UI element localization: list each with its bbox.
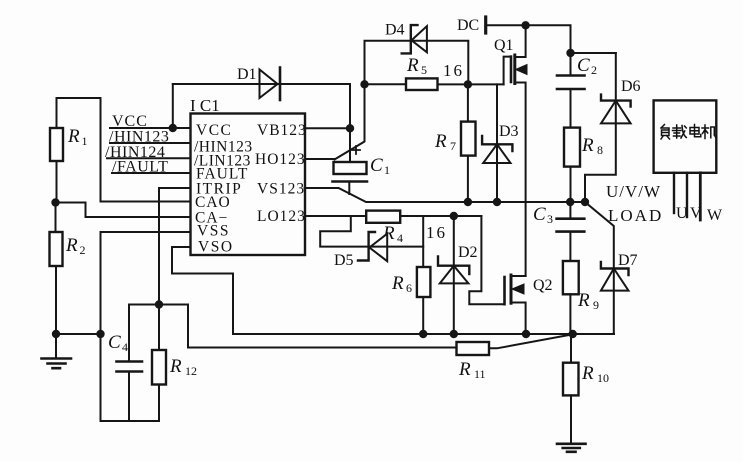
svg-text:VCC: VCC xyxy=(112,113,148,130)
svg-text:U/V/W: U/V/W xyxy=(606,182,661,201)
label D4 xyxy=(385,22,405,39)
svg-text:C: C xyxy=(533,204,546,225)
ground xyxy=(42,359,72,369)
label R5 xyxy=(406,55,464,80)
label C1 xyxy=(370,155,390,177)
svg-text:4: 4 xyxy=(397,231,403,245)
node VCC/D1 anode xyxy=(169,124,177,132)
svg-text:Q2: Q2 xyxy=(533,277,553,294)
label V xyxy=(690,205,702,222)
label D3 xyxy=(499,123,519,140)
node R1/R2 junction xyxy=(51,198,59,206)
node R8/C3 xyxy=(566,198,574,206)
pin FAULT xyxy=(196,166,248,183)
wire ITRIP pin down xyxy=(159,188,191,305)
wire /HIN123 input xyxy=(110,142,191,144)
wire /FAULT input xyxy=(112,172,191,174)
svg-text:Q1: Q1 xyxy=(494,37,514,54)
DC supply xyxy=(486,17,616,76)
wire D1 anode up xyxy=(172,84,174,128)
svg-text:12: 12 xyxy=(185,364,197,378)
svg-text:C: C xyxy=(577,55,590,76)
node D2 bottom xyxy=(450,330,458,338)
capacitor C1 xyxy=(333,146,368,194)
svg-text:/HIN123: /HIN123 xyxy=(109,129,169,146)
svg-text:I C1: I C1 xyxy=(190,96,220,115)
resistor R11 xyxy=(457,334,573,355)
label /FAULT input xyxy=(112,159,168,176)
label R1 xyxy=(67,126,88,148)
svg-text:HO123: HO123 xyxy=(255,151,306,168)
label load motor (Chinese 负载电机) xyxy=(661,125,716,140)
svg-text:R: R xyxy=(65,235,78,256)
wire ground junction to VSS branch xyxy=(56,333,101,335)
diode D4 xyxy=(365,25,469,84)
wire /HIN124 input xyxy=(107,157,191,159)
wire LO123 pin xyxy=(305,215,367,217)
wire VSO pin to bottom bus xyxy=(172,247,614,334)
pin VSS xyxy=(197,223,230,240)
label D1 xyxy=(237,66,257,83)
pin VS123 xyxy=(257,181,305,198)
pin LO123 xyxy=(257,208,306,225)
label R9 xyxy=(577,290,599,312)
svg-text:R: R xyxy=(581,135,594,156)
label W xyxy=(707,207,723,224)
svg-text:R: R xyxy=(67,126,80,147)
pin /LIN123 xyxy=(194,153,251,170)
label VCC input xyxy=(112,113,148,130)
node C2 top xyxy=(566,49,574,57)
svg-text:3: 3 xyxy=(547,212,553,226)
label R12 xyxy=(169,356,197,378)
node VSS/ground xyxy=(96,330,104,338)
node VB123/D1 xyxy=(346,124,354,132)
svg-text:W: W xyxy=(707,207,723,224)
svg-text:10: 10 xyxy=(597,371,609,385)
motor lead U xyxy=(673,173,675,213)
pin HO123 xyxy=(255,151,306,168)
node R7 bottom xyxy=(464,198,472,206)
label D7 xyxy=(618,252,638,269)
svg-text:R: R xyxy=(434,131,447,152)
label U/V/W xyxy=(606,182,661,201)
resistor R4 xyxy=(366,211,481,223)
label C2 xyxy=(577,55,597,77)
svg-text:VSO: VSO xyxy=(198,239,234,256)
label Q1 xyxy=(494,37,514,54)
svg-text:VSS: VSS xyxy=(197,223,230,240)
wire node to R11 xyxy=(188,305,457,348)
node Q2 source xyxy=(522,330,530,338)
label R2 xyxy=(65,235,86,257)
zener D6 xyxy=(585,53,631,202)
label D2 xyxy=(458,244,478,261)
capacitor C2 xyxy=(557,76,585,128)
svg-text:LO123: LO123 xyxy=(257,208,306,225)
svg-text:C: C xyxy=(108,332,121,353)
node R5/R7/gate xyxy=(464,80,472,88)
wire C4/R12 top node xyxy=(129,304,188,306)
IC U1 box xyxy=(191,114,306,256)
wire VSS pin down to C4/R12 bottom xyxy=(101,232,191,421)
wire junction to CA- pin xyxy=(56,203,191,218)
svg-text:V: V xyxy=(690,205,702,222)
motor lead W xyxy=(699,173,702,220)
pin VSO xyxy=(198,239,234,256)
load motor box xyxy=(654,100,717,172)
svg-text:VCC: VCC xyxy=(196,122,232,139)
label C3 xyxy=(533,204,553,226)
capacitor C4 xyxy=(117,305,143,422)
svg-text:16: 16 xyxy=(443,61,464,80)
svg-text:5: 5 xyxy=(421,63,427,77)
resistor R7 xyxy=(461,84,476,202)
pin VB123 xyxy=(257,122,307,139)
node D6/D7 xyxy=(581,198,589,206)
node Q1 drain xyxy=(521,21,529,29)
pin /HIN123 xyxy=(194,139,253,156)
wire HO123 pin xyxy=(305,158,335,160)
svg-text:D3: D3 xyxy=(499,123,519,140)
svg-text:D7: D7 xyxy=(618,252,638,269)
svg-text:R: R xyxy=(391,273,404,294)
svg-text:D1: D1 xyxy=(237,66,257,83)
label C4 xyxy=(108,332,128,354)
transistor Q1 xyxy=(504,25,527,276)
svg-text:R: R xyxy=(406,55,419,76)
svg-text:D5: D5 xyxy=(334,252,354,269)
label R8 xyxy=(581,135,603,157)
node D3 bottom xyxy=(493,198,501,206)
svg-text:D6: D6 xyxy=(621,78,641,95)
resistor R2 xyxy=(50,203,63,359)
resistor R12 xyxy=(152,305,166,422)
svg-text:1: 1 xyxy=(82,134,88,148)
resistor R1 xyxy=(50,128,63,203)
label R6 xyxy=(391,273,412,295)
pin ITRIP xyxy=(196,181,242,198)
label R11 xyxy=(458,359,486,381)
svg-text:D2: D2 xyxy=(458,244,478,261)
svg-text:U: U xyxy=(676,205,688,222)
svg-text:VB123: VB123 xyxy=(257,122,307,139)
svg-text:9: 9 xyxy=(593,298,599,312)
svg-text:8: 8 xyxy=(597,143,603,157)
diode D1 xyxy=(173,68,350,163)
zener D2 xyxy=(438,216,469,334)
svg-text:4: 4 xyxy=(122,340,128,354)
label D5 xyxy=(334,252,354,269)
resistor R9 xyxy=(563,261,579,334)
svg-text:C: C xyxy=(370,155,383,176)
wire HO diagonal to D4/R5 leg xyxy=(335,84,365,159)
node D4/R5/HO xyxy=(360,80,368,88)
label R7 xyxy=(434,131,456,153)
pin CA- xyxy=(195,210,228,227)
resistor R8 xyxy=(564,128,580,202)
node R6 bottom xyxy=(419,330,427,338)
label D6 xyxy=(621,78,641,95)
pin CAO xyxy=(195,194,231,211)
node C4/R12/ITRIP xyxy=(155,300,163,308)
svg-text:1: 1 xyxy=(384,163,390,177)
label U xyxy=(676,205,688,222)
node LO123/D2/gate xyxy=(450,212,458,220)
svg-text:DC: DC xyxy=(457,17,479,34)
svg-text:6: 6 xyxy=(406,281,412,295)
label R4 xyxy=(382,223,447,245)
resistor R6 xyxy=(417,216,431,334)
wire VS123 phase line xyxy=(305,188,585,202)
svg-text:11: 11 xyxy=(474,367,486,381)
label /HIN124 input xyxy=(105,144,165,161)
resistor R10 xyxy=(563,334,579,442)
label DC xyxy=(457,17,479,34)
label IC1 xyxy=(190,96,220,115)
transistor Q2 xyxy=(469,216,525,334)
diode D5 xyxy=(358,232,423,261)
svg-text:CAO: CAO xyxy=(195,194,231,211)
svg-text:16: 16 xyxy=(426,223,447,242)
zener D3 xyxy=(482,84,512,202)
svg-text:R: R xyxy=(581,363,594,384)
resistor R5 xyxy=(406,78,504,90)
label /HIN123 input xyxy=(109,129,169,146)
wire to R5 xyxy=(365,83,407,85)
svg-text:2: 2 xyxy=(591,63,597,77)
wire D5 branch xyxy=(320,216,368,247)
node ground junction xyxy=(52,330,60,338)
ground right xyxy=(557,444,586,452)
svg-text:R: R xyxy=(458,359,471,380)
node R9/R10/R11 xyxy=(569,330,577,338)
svg-text:VS123: VS123 xyxy=(257,181,305,198)
wire R1 top to CAO xyxy=(57,98,191,202)
label R10 xyxy=(581,363,609,385)
svg-text:R: R xyxy=(577,290,590,311)
label LOAD xyxy=(608,206,663,225)
label Q2 xyxy=(533,277,553,294)
capacitor C3 xyxy=(557,202,585,261)
pin VCC xyxy=(196,122,232,139)
svg-text:2: 2 xyxy=(80,243,86,257)
svg-text:7: 7 xyxy=(450,139,456,153)
svg-text:/FAULT: /FAULT xyxy=(112,159,168,176)
zener D7 xyxy=(585,202,629,334)
wire VB123 pin xyxy=(305,127,350,129)
motor lead V xyxy=(686,173,688,217)
svg-text:R: R xyxy=(169,356,182,377)
wire VCC input xyxy=(110,127,191,129)
svg-text:D4: D4 xyxy=(385,22,405,39)
svg-text:LOAD: LOAD xyxy=(608,206,663,225)
